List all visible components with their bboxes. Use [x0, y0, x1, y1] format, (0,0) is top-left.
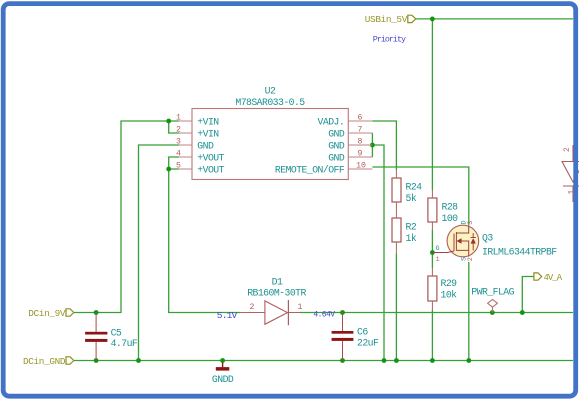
svg-text:2: 2 [250, 303, 255, 312]
svg-text:C6: C6 [357, 327, 368, 338]
svg-text:R24: R24 [406, 182, 423, 193]
svg-text:C5: C5 [111, 327, 122, 338]
svg-text:10: 10 [356, 162, 366, 171]
svg-text:GND: GND [197, 140, 214, 151]
svg-text:M78SAR033-0.5: M78SAR033-0.5 [235, 97, 305, 108]
svg-text:4V_A: 4V_A [544, 273, 563, 283]
svg-text:2: 2 [176, 126, 181, 135]
svg-text:REMOTE_ON/OFF: REMOTE_ON/OFF [275, 164, 345, 175]
svg-text:7: 7 [358, 126, 363, 135]
svg-text:GND: GND [328, 140, 345, 151]
svg-text:4.7uF: 4.7uF [111, 338, 138, 349]
svg-text:R28: R28 [442, 202, 459, 213]
svg-text:VADJ.: VADJ. [318, 116, 345, 127]
svg-text:PWR_FLAG: PWR_FLAG [471, 287, 514, 298]
svg-text:Priority: Priority [373, 34, 406, 44]
svg-text:U2: U2 [265, 86, 276, 97]
svg-text:IRLML6344TRPBF: IRLML6344TRPBF [482, 247, 557, 258]
svg-text:R2: R2 [406, 222, 417, 233]
svg-text:GNDD: GNDD [212, 374, 234, 385]
svg-text:+VOUT: +VOUT [197, 164, 224, 175]
svg-text:3: 3 [176, 138, 181, 147]
svg-text:5.1V: 5.1V [217, 310, 238, 321]
svg-text:RB160M-30TR: RB160M-30TR [247, 288, 306, 299]
svg-text:2: 2 [564, 147, 572, 152]
svg-text:+VOUT: +VOUT [197, 152, 224, 163]
svg-text:+VIN: +VIN [197, 128, 219, 139]
svg-text:3: 3 [467, 221, 475, 225]
svg-text:+VIN: +VIN [197, 116, 219, 127]
svg-text:GND: GND [328, 152, 345, 163]
svg-text:1: 1 [436, 256, 440, 264]
svg-text:10k: 10k [441, 290, 458, 301]
svg-text:1: 1 [298, 303, 303, 312]
svg-text:USBin_5V: USBin_5V [365, 14, 408, 25]
svg-text:4: 4 [176, 150, 181, 159]
svg-text:1k: 1k [406, 233, 417, 244]
svg-text:6: 6 [358, 114, 363, 123]
svg-text:2: 2 [467, 257, 475, 261]
svg-text:R29: R29 [441, 278, 458, 289]
svg-text:8: 8 [358, 138, 363, 147]
svg-text:D1: D1 [272, 277, 283, 288]
svg-text:5k: 5k [406, 193, 417, 204]
svg-text:DCin_GND: DCin_GND [23, 356, 66, 367]
svg-text:Q3: Q3 [482, 233, 493, 244]
svg-text:100: 100 [442, 213, 459, 224]
svg-text:GND: GND [328, 128, 345, 139]
svg-text:G: G [436, 245, 440, 253]
svg-text:DCin_9V: DCin_9V [28, 308, 66, 319]
svg-text:9: 9 [358, 150, 363, 159]
svg-text:4.64V: 4.64V [313, 311, 335, 320]
svg-text:5: 5 [176, 162, 181, 171]
svg-text:22uF: 22uF [357, 337, 379, 348]
svg-text:1: 1 [176, 114, 181, 123]
